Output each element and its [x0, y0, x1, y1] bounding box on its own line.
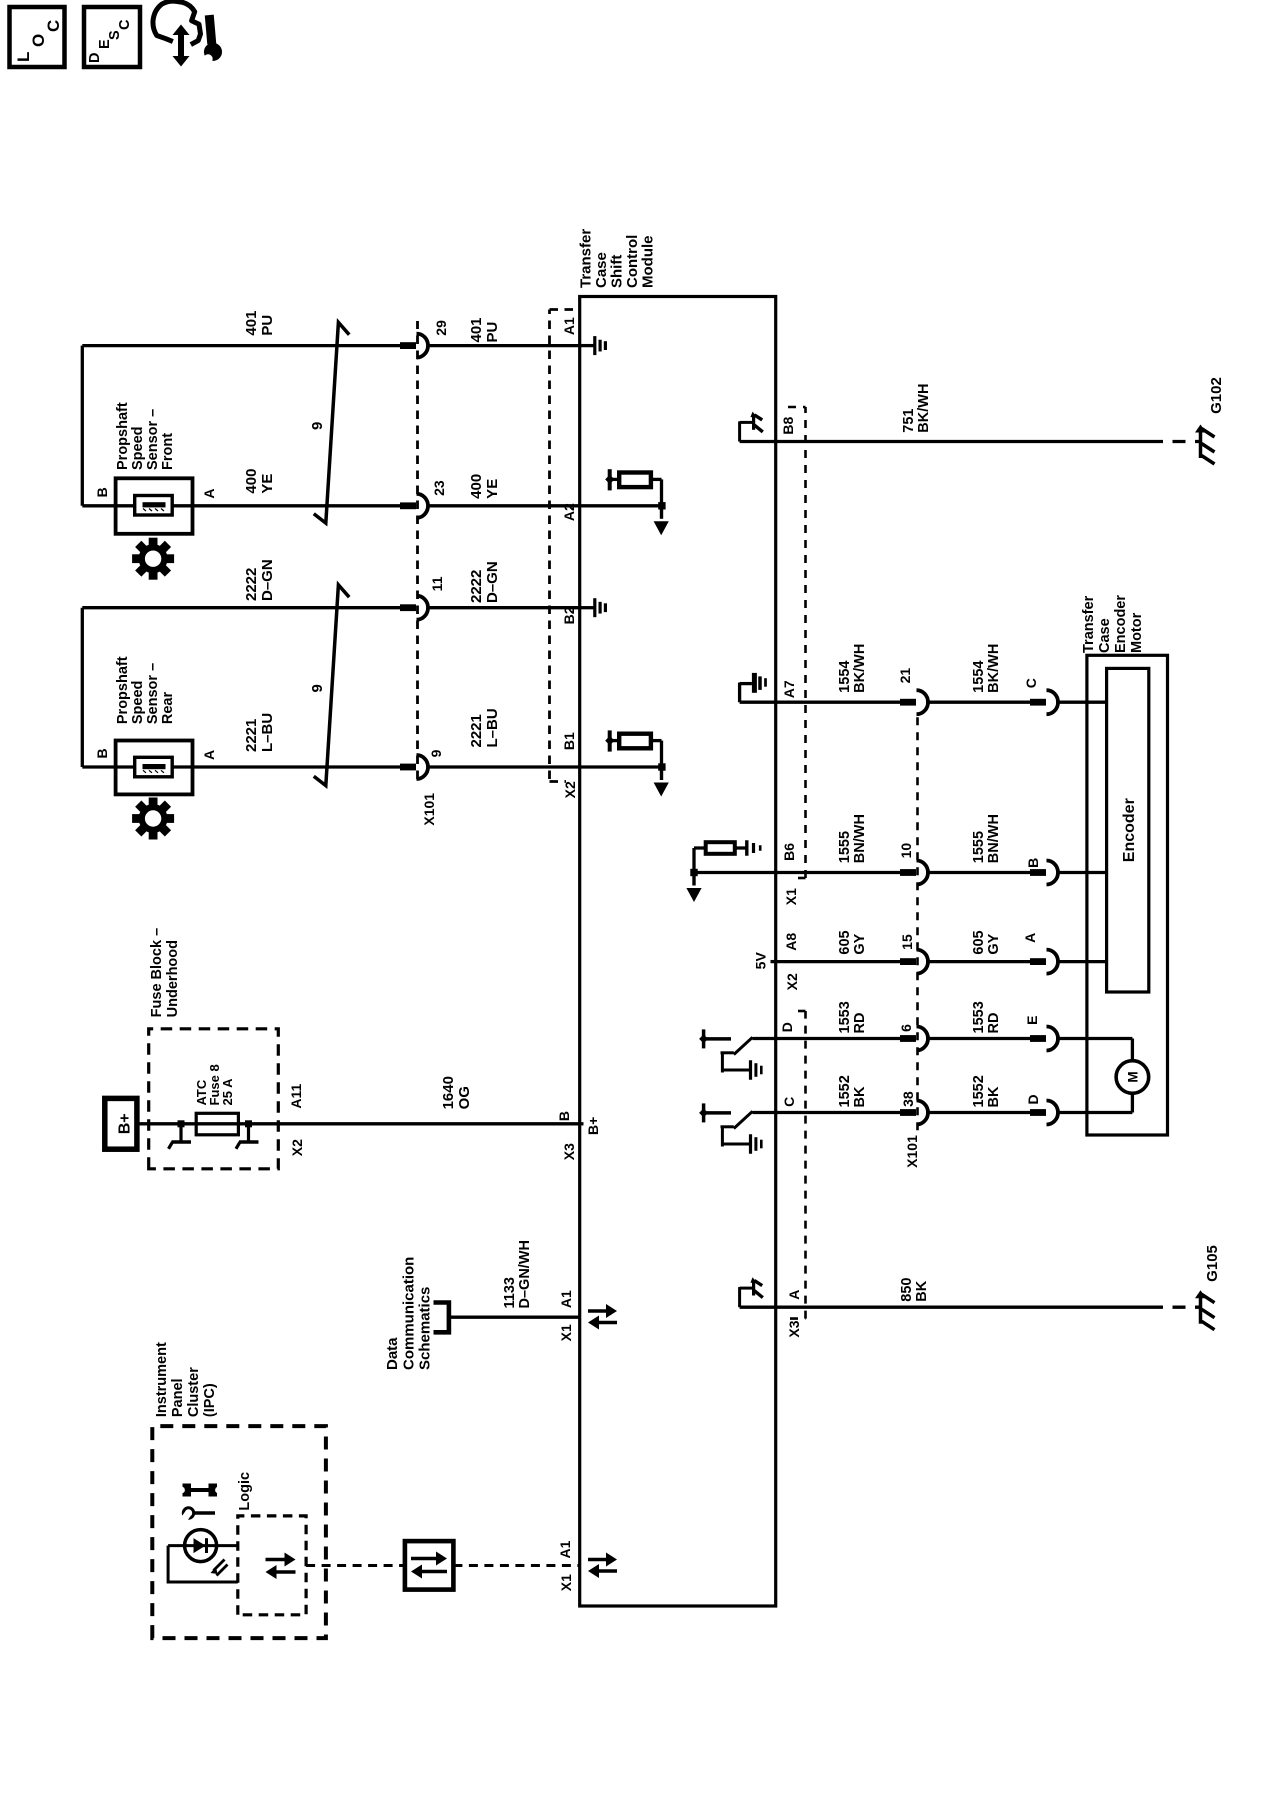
wire 1554 BK/WH (X101 to motor) [926, 701, 1031, 704]
wire front sensor B to 401 [82, 504, 115, 507]
svg-text:Rear: Rear [160, 692, 176, 725]
svg-text:A: A [1022, 933, 1038, 943]
svg-text:BK/WH: BK/WH [986, 644, 1002, 693]
svg-text:1554: 1554 [971, 661, 987, 693]
module internal pull-up at B1 [580, 765, 662, 768]
svg-text:2222: 2222 [468, 570, 485, 603]
encoder block [1107, 668, 1149, 992]
module internal B+ stub [580, 1122, 584, 1125]
svg-text:X2: X2 [289, 1139, 305, 1156]
svg-text:Fuse Block –: Fuse Block – [149, 928, 165, 1017]
wire 1555 BN/WH (B6 to X101) [776, 871, 901, 874]
svg-text:Transfer: Transfer [578, 229, 595, 288]
ground G105 [1199, 1296, 1203, 1324]
module internal serial data arrows (IPC pin) [588, 1558, 606, 1562]
connector X101 terminal 9 [400, 764, 416, 771]
svg-text:1133: 1133 [502, 1277, 518, 1308]
svg-text:X101: X101 [904, 1135, 920, 1168]
fuse clip lower [245, 1120, 252, 1127]
svg-text:S: S [107, 30, 123, 40]
off-page reference bracket [434, 1303, 449, 1333]
svg-text:Propshaft: Propshaft [115, 656, 131, 724]
svg-text:1553: 1553 [971, 1001, 987, 1033]
svg-text:Communication: Communication [401, 1257, 418, 1370]
svg-text:10: 10 [898, 843, 914, 859]
svg-text:X1: X1 [558, 1324, 574, 1341]
svg-text:X3: X3 [561, 1143, 577, 1160]
svg-text:YE: YE [484, 479, 501, 499]
module internal ground at A1 [580, 344, 595, 347]
wire telltale to logic [168, 1546, 238, 1582]
svg-text:G102: G102 [1208, 377, 1225, 414]
wire 1554 BK/WH (A7 to X101) [776, 701, 901, 704]
svg-text:RD: RD [852, 1013, 868, 1034]
connector X101 dashed line (sensor side) [416, 321, 419, 779]
module internal serial data arrows (data pin) [588, 1309, 606, 1313]
svg-text:D: D [87, 53, 103, 63]
svg-text:A1: A1 [561, 317, 577, 335]
module internal pull-up at A2 [580, 504, 662, 507]
LOC icon box [10, 7, 65, 67]
svg-text:1640: 1640 [440, 1076, 457, 1109]
svg-text:A2: A2 [561, 503, 577, 521]
svg-text:Transfer: Transfer [1081, 595, 1097, 653]
svg-text:B: B [94, 748, 110, 758]
wire 1555 BN/WH (X101 to motor) [926, 871, 1031, 874]
svg-text:Data: Data [384, 1337, 401, 1370]
svg-text:C: C [781, 1097, 797, 1107]
svg-text:B6: B6 [781, 843, 797, 861]
svg-text:2222: 2222 [243, 568, 260, 601]
svg-text:400: 400 [468, 474, 485, 499]
wire to motor terminal D [1056, 1111, 1132, 1114]
svg-text:B: B [1025, 858, 1041, 868]
svg-text:Speed: Speed [130, 426, 146, 470]
svg-text:A1: A1 [558, 1290, 574, 1308]
svg-text:Front: Front [160, 433, 176, 470]
svg-text:850: 850 [899, 1277, 915, 1301]
svg-text:Propshaft: Propshaft [115, 402, 131, 470]
svg-text:B+: B+ [117, 1113, 134, 1134]
module internal ground at B2 [580, 606, 595, 609]
svg-text:BN/WH: BN/WH [852, 814, 868, 863]
connector X101 terminal 15 [900, 958, 916, 965]
svg-text:25 A: 25 A [220, 1078, 235, 1106]
wire B+ to fuse block [137, 1122, 580, 1125]
svg-text:A: A [786, 1290, 802, 1300]
transfer case encoder motor box [1087, 655, 1168, 1135]
svg-text:9: 9 [309, 422, 326, 430]
svg-text:B2: B2 [561, 606, 577, 624]
svg-text:BN/WH: BN/WH [986, 814, 1002, 863]
svg-text:Module: Module [640, 236, 657, 289]
battery positive B+ box [105, 1098, 137, 1149]
wire to motor terminal E [1056, 1037, 1132, 1040]
wire front sensor A 400 YE [193, 504, 402, 507]
svg-text:X1: X1 [558, 1574, 574, 1591]
svg-text:9: 9 [428, 749, 444, 757]
svg-text:C: C [117, 19, 133, 30]
module internal pull-up at B6 [694, 871, 776, 874]
svg-text:Case: Case [593, 252, 610, 288]
svg-text:L–BU: L–BU [259, 713, 276, 752]
motor M [1116, 1061, 1149, 1094]
encoder motor pin D connector [1030, 1109, 1046, 1116]
svg-text:2221: 2221 [468, 714, 485, 747]
svg-text:1553: 1553 [837, 1001, 853, 1033]
svg-text:O: O [29, 34, 48, 47]
svg-text:RD: RD [986, 1013, 1002, 1034]
svg-text:E: E [1024, 1016, 1040, 1025]
wire rear sensor A 2221 L-BU [193, 765, 402, 768]
transfer case shift control module [580, 297, 776, 1607]
svg-text:9: 9 [309, 684, 326, 692]
svg-text:X2: X2 [784, 973, 800, 990]
svg-text:D–GN: D–GN [484, 561, 501, 603]
wire 850 BK to G105 [776, 1306, 1150, 1309]
svg-text:B: B [556, 1111, 572, 1121]
svg-text:(IPC): (IPC) [202, 1383, 218, 1417]
svg-text:1552: 1552 [837, 1075, 853, 1107]
module internal ground at A7 [740, 701, 776, 704]
svg-text:L–BU: L–BU [484, 708, 501, 747]
svg-text:2221: 2221 [243, 719, 260, 752]
module connector X1 dashed line (bottom) [804, 407, 807, 878]
connector X101 terminal 6 [900, 1035, 916, 1042]
twisted pair mark rear, note 9 [314, 585, 349, 786]
gear icon rear [132, 798, 174, 840]
svg-text:Sensor –: Sensor – [145, 663, 161, 724]
svg-text:PU: PU [259, 315, 276, 336]
svg-text:C: C [44, 20, 63, 32]
svg-text:605: 605 [971, 930, 987, 954]
svg-text:Shift: Shift [609, 255, 626, 288]
svg-text:Schematics: Schematics [417, 1287, 434, 1370]
fuse block underhood dashed box [149, 1029, 279, 1169]
wire to encoder pin A [1056, 960, 1106, 963]
svg-text:GY: GY [852, 933, 868, 954]
module internal 5V reference at A8 [771, 960, 776, 963]
svg-text:Encoder: Encoder [1113, 595, 1129, 653]
svg-text:Panel: Panel [170, 1378, 186, 1417]
gear icon front [132, 538, 174, 580]
svg-text:BK: BK [986, 1086, 1002, 1107]
svg-text:D–GN/WH: D–GN/WH [517, 1240, 533, 1308]
module internal chassis ground at B8 [740, 440, 776, 443]
serial data dashed wire (logic to gateway) [306, 1564, 405, 1567]
svg-text:1555: 1555 [837, 831, 853, 863]
connector X101 terminal 29 [400, 342, 416, 349]
wire to encoder pin C [1056, 701, 1106, 704]
IPC logic serial data arrows [266, 1558, 285, 1562]
svg-text:11: 11 [429, 576, 445, 591]
svg-text:15: 15 [899, 934, 915, 950]
svg-text:A: A [201, 488, 217, 498]
propshaft speed sensor front [116, 504, 193, 507]
svg-text:A8: A8 [783, 933, 799, 951]
encoder motor pin C connector [1030, 699, 1046, 706]
svg-text:M: M [1125, 1071, 1140, 1082]
wire 1552 BK (X101 to motor) [926, 1111, 1031, 1114]
wire 401 PU (X101 to module) [428, 344, 580, 347]
wire 2222 D-GN (X101 to module) [428, 606, 580, 609]
svg-text:X2: X2 [562, 781, 578, 798]
svg-text:B8: B8 [780, 416, 796, 434]
svg-text:D: D [779, 1022, 795, 1032]
svg-text:Sensor –: Sensor – [145, 409, 161, 470]
wire 605 GY (A8 to X101) [776, 960, 901, 963]
instrument panel cluster dashed box [152, 1426, 326, 1638]
wire 1553 RD (X101 to motor) [926, 1037, 1031, 1040]
svg-text:BK: BK [852, 1086, 868, 1107]
svg-text:BK/WH: BK/WH [852, 644, 868, 693]
wire rear sensor B to 2222 [82, 765, 115, 768]
telltale wrench mini icons [193, 1511, 215, 1514]
DESC icon box [84, 7, 140, 67]
encoder motor pin E connector [1030, 1035, 1046, 1042]
svg-text:6: 6 [898, 1024, 914, 1032]
svg-text:Control: Control [624, 235, 641, 288]
svg-text:D: D [1025, 1094, 1041, 1104]
module connector X3/X101 dashed line (bottom left) [804, 1011, 807, 1319]
svg-text:BK: BK [914, 1280, 930, 1301]
svg-text:1555: 1555 [971, 831, 987, 863]
svg-text:Motor: Motor [1129, 612, 1145, 653]
svg-text:400: 400 [243, 469, 260, 494]
encoder motor pin A connector [1030, 958, 1046, 965]
svg-text:1554: 1554 [837, 661, 853, 693]
wire to encoder pin B [1056, 871, 1106, 874]
svg-text:A1: A1 [557, 1540, 573, 1558]
svg-text:YE: YE [259, 474, 276, 494]
IPC logic dashed box [238, 1516, 306, 1615]
svg-text:A11: A11 [288, 1083, 304, 1108]
svg-text:Underhood: Underhood [165, 940, 181, 1017]
svg-text:G105: G105 [1204, 1245, 1221, 1282]
fuse 8 ATC 25A [196, 1113, 238, 1135]
twisted pair mark front, note 9 [314, 322, 349, 523]
wire 605 GY (X101 to motor) [926, 960, 1031, 963]
svg-text:5V: 5V [753, 952, 769, 970]
connector X101 terminal 38 [900, 1109, 916, 1116]
svg-text:B+: B+ [585, 1117, 601, 1135]
serial data gateway box [405, 1541, 454, 1590]
svg-text:605: 605 [837, 930, 853, 954]
svg-text:Cluster: Cluster [186, 1367, 202, 1417]
svg-text:Case: Case [1097, 618, 1113, 653]
svg-text:C: C [1023, 678, 1039, 688]
svg-text:X1: X1 [783, 888, 799, 905]
svg-text:X101: X101 [421, 793, 437, 826]
svg-text:PU: PU [484, 322, 501, 343]
wire 2221 L-BU (X101 to module) [428, 765, 580, 768]
svg-text:Instrument: Instrument [154, 1342, 170, 1417]
svg-text:BK/WH: BK/WH [916, 384, 932, 433]
svg-text:21: 21 [897, 668, 913, 684]
wire 1133 D-GN/WH [449, 1316, 580, 1319]
wire 751 BK/WH to G102 [776, 440, 1150, 443]
module internal driver switch at C [753, 1111, 776, 1114]
svg-text:1552: 1552 [971, 1075, 987, 1107]
svg-text:A7: A7 [781, 680, 797, 698]
svg-text:GY: GY [986, 933, 1002, 954]
fuse clip upper [178, 1120, 185, 1127]
connector X101 dashed line (motor side) [916, 714, 919, 1130]
svg-text:401: 401 [468, 317, 485, 342]
svg-text:B: B [94, 487, 110, 497]
svg-text:B1: B1 [561, 732, 577, 750]
svg-text:38: 38 [900, 1091, 916, 1107]
svg-text:Logic: Logic [237, 1472, 253, 1511]
service 4WD telltale lamp [168, 1544, 238, 1547]
module internal chassis ground at A [740, 1306, 776, 1309]
module connector X2 dashed line (top) [548, 310, 551, 780]
connector X101 terminal 11 [400, 604, 416, 611]
telltale lightning mark [214, 1560, 225, 1571]
wire 1552 BK (C to X101) [776, 1111, 901, 1114]
svg-text:401: 401 [243, 311, 260, 336]
module internal driver switch at D [753, 1037, 776, 1040]
svg-text:A: A [201, 750, 217, 760]
svg-text:Encoder: Encoder [1121, 798, 1138, 862]
wire 400 YE (X101 to module) [428, 504, 580, 507]
connector X101 terminal 21 [900, 699, 916, 706]
encoder motor pin B connector [1030, 869, 1046, 876]
svg-text:L: L [14, 52, 33, 62]
connector X101 terminal 10 [900, 869, 916, 876]
svg-text:29: 29 [433, 320, 449, 336]
service 4WD icon [153, 1, 201, 43]
ground G102 [1199, 431, 1203, 459]
serial data dashed wire (gateway to module) [453, 1564, 579, 1567]
svg-text:Speed: Speed [130, 681, 146, 725]
wire 1553 RD (D to X101) [776, 1037, 901, 1040]
svg-text:751: 751 [901, 408, 917, 432]
connector X101 terminal 23 [400, 502, 416, 509]
svg-text:X3: X3 [786, 1320, 802, 1337]
svg-text:D–GN: D–GN [259, 559, 276, 601]
propshaft speed sensor rear [116, 765, 193, 768]
svg-text:OG: OG [456, 1086, 473, 1109]
svg-text:23: 23 [431, 480, 447, 496]
